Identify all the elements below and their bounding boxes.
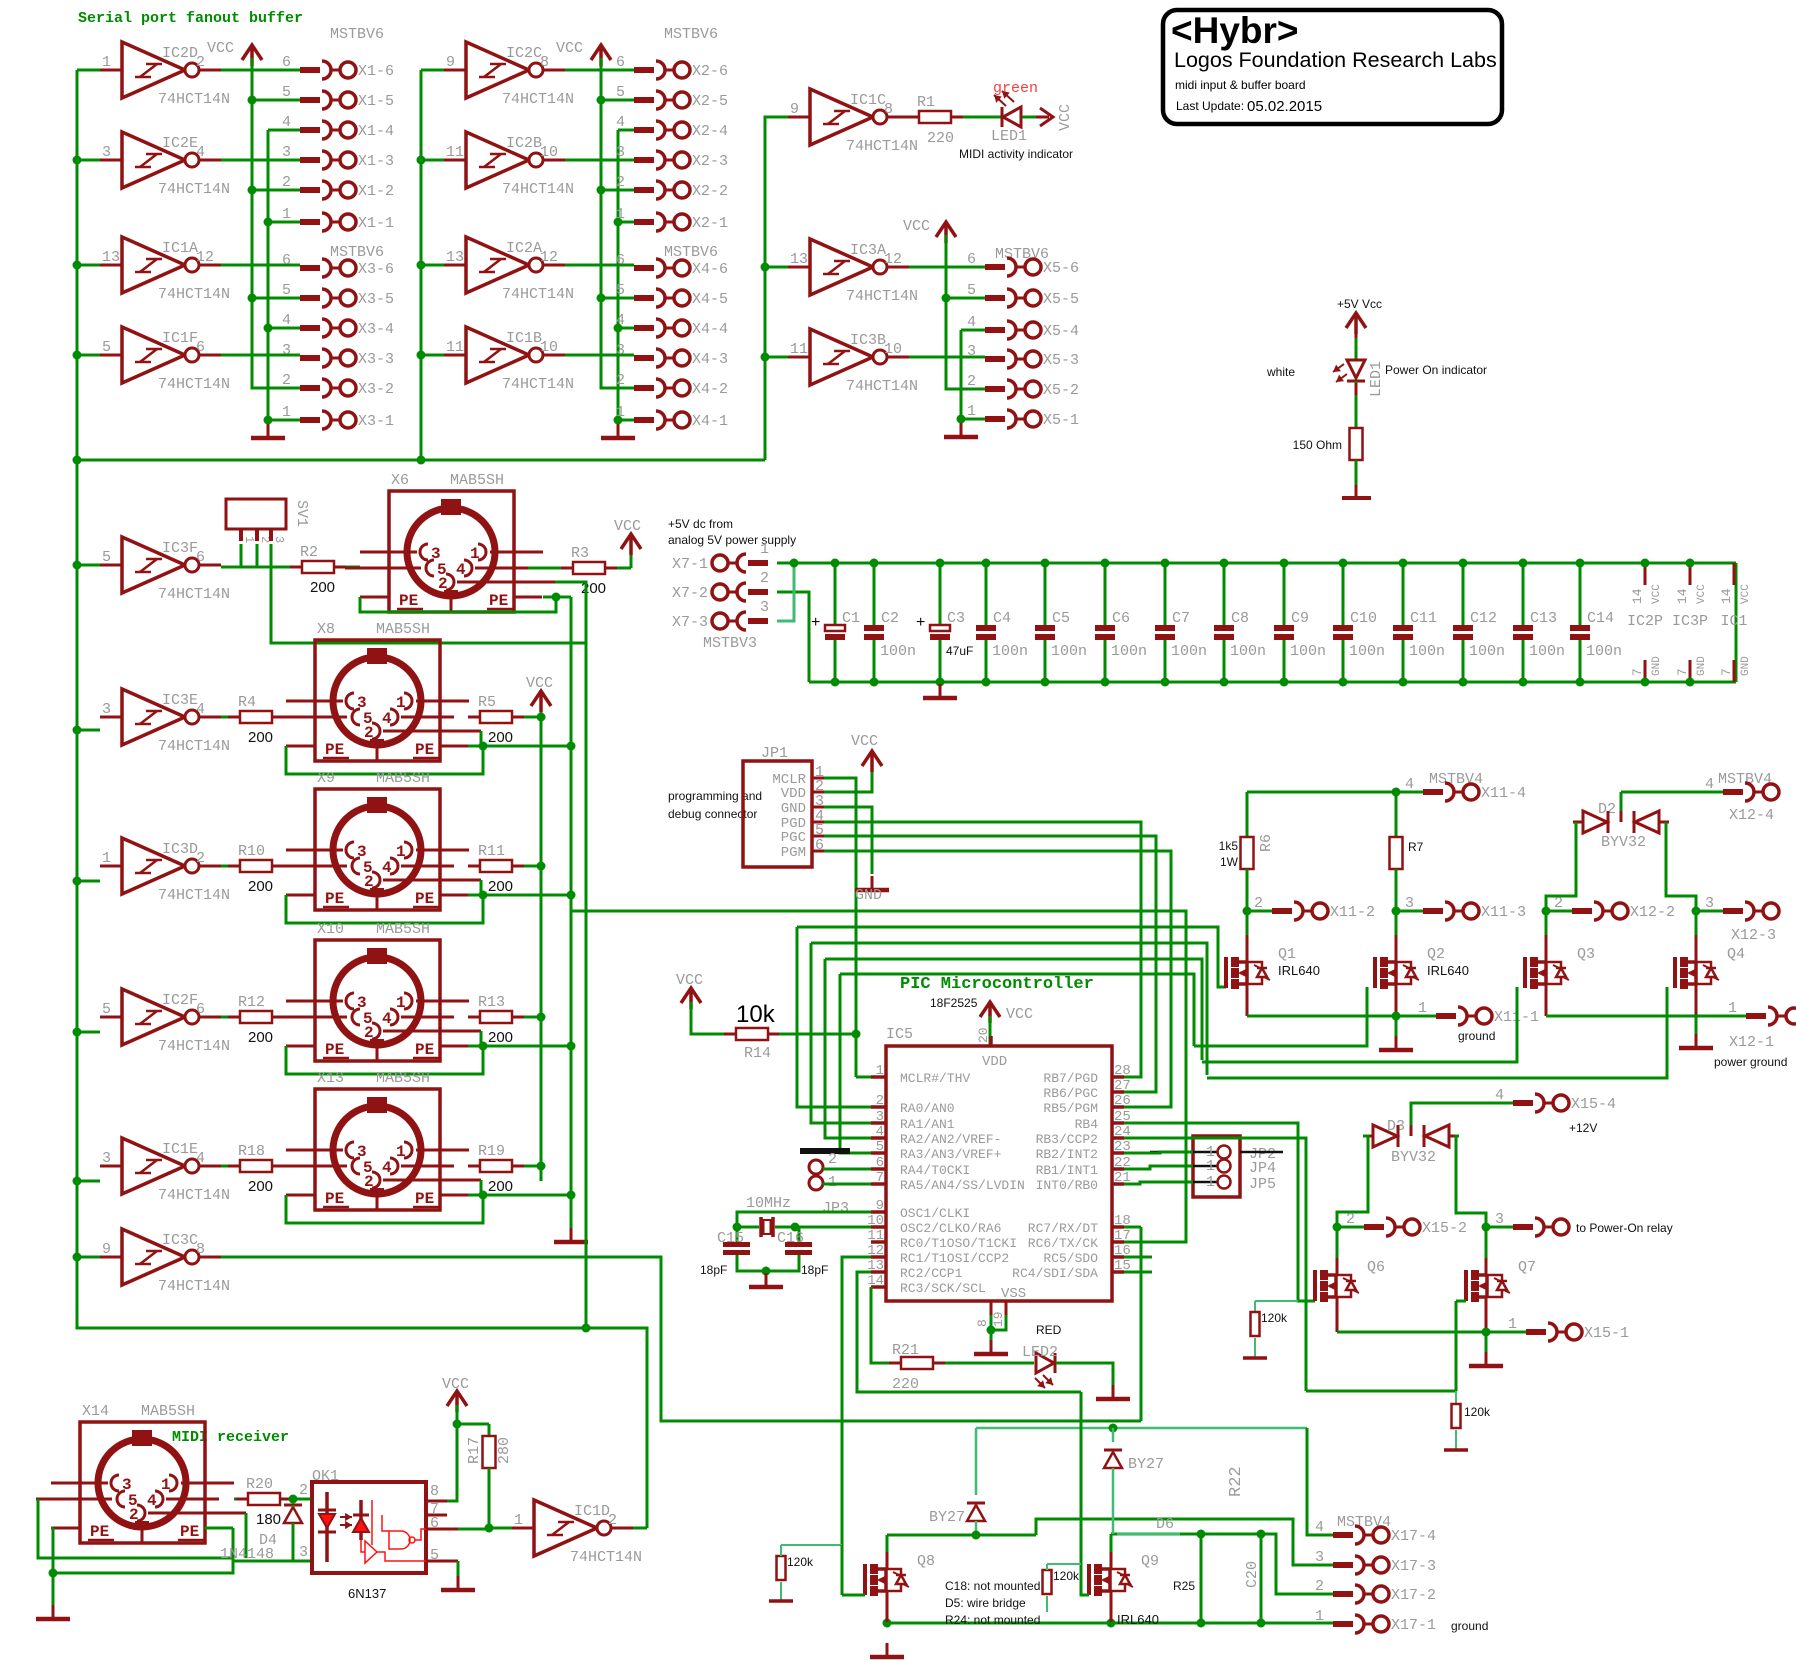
svg-text:RA1/AN1: RA1/AN1	[900, 1117, 955, 1132]
svg-text:RED: RED	[1036, 1323, 1062, 1337]
svg-text:R10: R10	[238, 843, 265, 860]
svg-text:IC3F: IC3F	[162, 540, 198, 557]
svg-text:LED1: LED1	[991, 128, 1027, 145]
svg-text:1: 1	[967, 403, 976, 420]
svg-text:IC1F: IC1F	[162, 330, 198, 347]
svg-text:C16: C16	[777, 1230, 804, 1247]
svg-text:R11: R11	[478, 843, 505, 860]
svg-text:X4-1: X4-1	[692, 413, 728, 430]
svg-text:1: 1	[1206, 1158, 1215, 1175]
svg-text:MAB5SH: MAB5SH	[141, 1403, 195, 1420]
svg-text:3: 3	[1705, 895, 1714, 912]
svg-text:X17-1: X17-1	[1391, 1617, 1436, 1634]
svg-text:X2-2: X2-2	[692, 183, 728, 200]
svg-text:C18: not mounted: C18: not mounted	[945, 1579, 1040, 1593]
svg-text:Logos Foundation Research Labs: Logos Foundation Research Labs	[1174, 48, 1497, 72]
svg-text:RC6/TX/CK: RC6/TX/CK	[1028, 1236, 1098, 1251]
svg-text:GND: GND	[1740, 656, 1752, 676]
svg-text:X11-4: X11-4	[1481, 785, 1526, 802]
svg-text:MAB5SH: MAB5SH	[376, 1070, 430, 1087]
svg-text:100n: 100n	[1290, 643, 1326, 660]
svg-text:IC3P: IC3P	[1672, 613, 1708, 630]
svg-text:MIDI activity indicator: MIDI activity indicator	[959, 147, 1073, 161]
svg-text:C13: C13	[1530, 610, 1557, 627]
svg-text:6: 6	[282, 54, 291, 71]
svg-text:C3: C3	[947, 610, 965, 627]
svg-text:3: 3	[876, 1109, 884, 1125]
svg-text:X5-3: X5-3	[1043, 352, 1079, 369]
svg-text:C10: C10	[1350, 610, 1377, 627]
svg-text:5: 5	[967, 282, 976, 299]
svg-text:2: 2	[616, 174, 625, 191]
svg-text:VSS: VSS	[1001, 1286, 1026, 1302]
svg-text:74HCT14N: 74HCT14N	[158, 1278, 230, 1295]
svg-text:Last Update:: Last Update:	[1176, 99, 1244, 113]
svg-text:Q3: Q3	[1577, 946, 1595, 963]
svg-text:1: 1	[1728, 1000, 1737, 1017]
svg-text:RC5/SDO: RC5/SDO	[1043, 1251, 1098, 1266]
svg-text:IC2P: IC2P	[1627, 613, 1663, 630]
svg-text:Serial port fanout buffer: Serial port fanout buffer	[78, 10, 303, 27]
svg-text:VCC: VCC	[442, 1376, 469, 1393]
svg-text:R6: R6	[1258, 834, 1275, 852]
svg-text:7: 7	[876, 1170, 884, 1186]
svg-text:4: 4	[967, 314, 976, 331]
svg-text:PE: PE	[415, 1190, 434, 1208]
svg-text:X2-5: X2-5	[692, 93, 728, 110]
svg-text:C20: C20	[1244, 1561, 1261, 1588]
svg-text:R25: R25	[1173, 1579, 1195, 1593]
svg-text:X15-4: X15-4	[1571, 1096, 1616, 1113]
svg-text:LED1: LED1	[1368, 361, 1385, 397]
svg-text:14: 14	[867, 1273, 884, 1289]
svg-text:JP5: JP5	[1249, 1176, 1276, 1193]
svg-text:1k5: 1k5	[1219, 839, 1239, 853]
svg-text:LED2: LED2	[1022, 1344, 1058, 1361]
svg-text:3: 3	[282, 144, 291, 161]
svg-text:10: 10	[884, 341, 902, 358]
svg-text:IC1E: IC1E	[162, 1141, 198, 1158]
svg-text:RA5/AN4/SS/LVDIN: RA5/AN4/SS/LVDIN	[900, 1178, 1025, 1193]
svg-text:C7: C7	[1172, 610, 1190, 627]
svg-text:MSTBV6: MSTBV6	[330, 244, 384, 261]
svg-text:VCC: VCC	[207, 40, 234, 57]
svg-text:Q2: Q2	[1427, 946, 1445, 963]
svg-text:3: 3	[272, 536, 286, 543]
svg-text:PGC: PGC	[781, 830, 806, 846]
svg-text:X6: X6	[391, 472, 409, 489]
svg-text:X12-3: X12-3	[1731, 927, 1776, 944]
svg-text:Q7: Q7	[1518, 1259, 1536, 1276]
svg-text:5: 5	[282, 282, 291, 299]
svg-text:74HCT14N: 74HCT14N	[158, 738, 230, 755]
svg-text:1: 1	[242, 536, 256, 543]
svg-text:SV1: SV1	[293, 500, 310, 527]
svg-text:<Hybr>: <Hybr>	[1171, 10, 1299, 51]
svg-text:D6: D6	[1156, 1516, 1174, 1533]
svg-text:10: 10	[540, 144, 558, 161]
svg-text:3: 3	[1495, 1211, 1504, 1228]
svg-text:6: 6	[616, 252, 625, 269]
svg-text:MAB5SH: MAB5SH	[450, 472, 504, 489]
svg-text:PE: PE	[415, 890, 434, 908]
svg-text:Power On indicator: Power On indicator	[1385, 363, 1487, 377]
svg-text:VCC: VCC	[1696, 584, 1708, 604]
svg-text:power ground: power ground	[1714, 1055, 1787, 1069]
svg-text:VDD: VDD	[781, 786, 806, 802]
svg-text:X4-4: X4-4	[692, 321, 728, 338]
svg-text:X5-2: X5-2	[1043, 382, 1079, 399]
svg-text:C12: C12	[1470, 610, 1497, 627]
svg-text:3: 3	[1315, 1549, 1324, 1566]
svg-text:VCC: VCC	[1740, 584, 1752, 604]
svg-text:RC3/SCK/SCL: RC3/SCK/SCL	[900, 1281, 986, 1296]
svg-text:7: 7	[1630, 668, 1645, 676]
svg-text:74HCT14N: 74HCT14N	[502, 286, 574, 303]
svg-text:C6: C6	[1112, 610, 1130, 627]
svg-text:200: 200	[248, 729, 273, 746]
svg-text:PIC Microcontroller: PIC Microcontroller	[900, 975, 1094, 994]
svg-text:6: 6	[967, 251, 976, 268]
svg-text:17: 17	[1114, 1228, 1131, 1244]
svg-text:R1: R1	[917, 94, 935, 111]
svg-text:GND: GND	[855, 887, 882, 904]
svg-text:R12: R12	[238, 994, 265, 1011]
svg-text:JP4: JP4	[1249, 1160, 1276, 1177]
svg-text:X5-4: X5-4	[1043, 323, 1079, 340]
svg-text:11: 11	[446, 144, 464, 161]
svg-text:200: 200	[488, 1029, 513, 1046]
svg-text:6: 6	[815, 837, 824, 854]
svg-text:150 Ohm: 150 Ohm	[1293, 438, 1342, 452]
svg-text:X15-2: X15-2	[1422, 1220, 1467, 1237]
svg-text:ground: ground	[1458, 1029, 1495, 1043]
svg-text:C15: C15	[717, 1230, 744, 1247]
svg-text:VCC: VCC	[526, 675, 553, 692]
svg-text:2: 2	[828, 1151, 837, 1168]
svg-text:220: 220	[892, 1376, 919, 1393]
svg-text:18pF: 18pF	[801, 1263, 828, 1277]
svg-text:1: 1	[102, 54, 111, 71]
svg-text:RC1/T1OSI/CCP2: RC1/T1OSI/CCP2	[900, 1251, 1009, 1266]
svg-text:VCC: VCC	[676, 972, 703, 989]
svg-text:programming and: programming and	[668, 789, 762, 803]
svg-text:14: 14	[1630, 588, 1645, 604]
svg-text:IC1A: IC1A	[162, 240, 198, 257]
svg-text:IC2A: IC2A	[506, 240, 542, 257]
svg-text:200: 200	[488, 729, 513, 746]
svg-text:MSTBV6: MSTBV6	[330, 26, 384, 43]
svg-text:120k: 120k	[1053, 1569, 1080, 1583]
svg-text:VCC: VCC	[614, 518, 641, 535]
svg-text:X5-5: X5-5	[1043, 291, 1079, 308]
svg-text:12: 12	[196, 249, 214, 266]
svg-text:12: 12	[884, 251, 902, 268]
svg-text:IC3C: IC3C	[162, 1232, 198, 1249]
svg-text:3: 3	[616, 144, 625, 161]
svg-text:X5-1: X5-1	[1043, 412, 1079, 429]
svg-text:PE: PE	[399, 592, 418, 610]
svg-text:6N137: 6N137	[348, 1586, 386, 1601]
svg-text:13: 13	[790, 251, 808, 268]
svg-text:R18: R18	[238, 1143, 265, 1160]
svg-text:X9: X9	[317, 770, 335, 787]
svg-text:R17: R17	[466, 1437, 483, 1464]
svg-text:11: 11	[446, 339, 464, 356]
svg-text:PE: PE	[415, 741, 434, 759]
svg-text:X1-6: X1-6	[358, 63, 394, 80]
svg-text:MIDI receiver: MIDI receiver	[172, 1429, 289, 1446]
svg-text:X1-2: X1-2	[358, 183, 394, 200]
svg-text:IC3B: IC3B	[850, 332, 886, 349]
svg-text:3: 3	[299, 1544, 308, 1561]
svg-text:RC7/RX/DT: RC7/RX/DT	[1028, 1221, 1098, 1236]
svg-text:RC0/T1OSO/T1CKI: RC0/T1OSO/T1CKI	[900, 1236, 1017, 1251]
svg-text:X17-4: X17-4	[1391, 1528, 1436, 1545]
svg-text:18pF: 18pF	[700, 1263, 727, 1277]
svg-text:2: 2	[616, 372, 625, 389]
svg-text:RB6/PGC: RB6/PGC	[1043, 1086, 1098, 1101]
svg-text:4: 4	[1495, 1087, 1504, 1104]
svg-text:100n: 100n	[1230, 643, 1266, 660]
svg-text:47uF: 47uF	[946, 644, 973, 658]
svg-text:MAB5SH: MAB5SH	[376, 921, 430, 938]
svg-text:2: 2	[299, 1482, 308, 1499]
svg-text:220: 220	[927, 130, 954, 147]
svg-text:100n: 100n	[1349, 643, 1385, 660]
svg-text:1: 1	[1418, 1000, 1427, 1017]
svg-text:1: 1	[282, 206, 291, 223]
svg-text:RB3/CCP2: RB3/CCP2	[1036, 1132, 1098, 1147]
svg-text:3: 3	[102, 144, 111, 161]
svg-text:X12-4: X12-4	[1729, 807, 1774, 824]
svg-text:PE: PE	[325, 1041, 344, 1059]
svg-text:JP3: JP3	[822, 1200, 849, 1217]
svg-text:200: 200	[248, 878, 273, 895]
svg-text:RA0/AN0: RA0/AN0	[900, 1101, 955, 1116]
svg-text:IC1C: IC1C	[850, 92, 886, 109]
svg-text:IC2C: IC2C	[506, 45, 542, 62]
svg-text:200: 200	[488, 1178, 513, 1195]
svg-text:100n: 100n	[1111, 643, 1147, 660]
svg-text:INT0/RB0: INT0/RB0	[1036, 1178, 1098, 1193]
svg-text:5: 5	[102, 549, 111, 566]
svg-text:X17-2: X17-2	[1391, 1587, 1436, 1604]
svg-text:120k: 120k	[787, 1555, 814, 1569]
svg-text:X4-3: X4-3	[692, 351, 728, 368]
svg-text:R3: R3	[571, 545, 589, 562]
svg-text:GND: GND	[1651, 656, 1663, 676]
svg-text:VCC: VCC	[1651, 584, 1663, 604]
svg-text:27: 27	[1114, 1078, 1131, 1094]
svg-text:+: +	[811, 614, 820, 631]
svg-text:RB2/INT2: RB2/INT2	[1036, 1147, 1098, 1162]
svg-text:BYV32: BYV32	[1391, 1149, 1436, 1166]
svg-text:RA2/AN2/VREF-: RA2/AN2/VREF-	[900, 1132, 1001, 1147]
svg-text:X2-4: X2-4	[692, 123, 728, 140]
svg-text:MSTBV6: MSTBV6	[664, 244, 718, 261]
svg-text:R4: R4	[238, 694, 256, 711]
svg-text:R14: R14	[744, 1045, 771, 1062]
svg-text:1: 1	[1206, 1174, 1215, 1191]
svg-text:120k: 120k	[1261, 1311, 1288, 1325]
svg-text:100n: 100n	[1051, 643, 1087, 660]
svg-text:2: 2	[876, 1093, 884, 1109]
svg-text:BY27: BY27	[1128, 1456, 1164, 1473]
svg-text:MAB5SH: MAB5SH	[376, 770, 430, 787]
svg-text:X7-1: X7-1	[672, 556, 708, 573]
svg-text:1: 1	[1508, 1316, 1517, 1333]
svg-text:X4-6: X4-6	[692, 261, 728, 278]
svg-text:2: 2	[1554, 895, 1563, 912]
svg-text:X4-5: X4-5	[692, 291, 728, 308]
svg-text:2: 2	[282, 372, 291, 389]
svg-text:X12-1: X12-1	[1729, 1034, 1774, 1051]
svg-text:2: 2	[967, 373, 976, 390]
svg-text:X11-3: X11-3	[1481, 904, 1526, 921]
svg-text:74HCT14N: 74HCT14N	[502, 181, 574, 198]
svg-text:10: 10	[540, 339, 558, 356]
svg-text:74HCT14N: 74HCT14N	[846, 378, 918, 395]
svg-text:200: 200	[248, 1029, 273, 1046]
svg-text:1: 1	[616, 206, 625, 223]
svg-text:PGM: PGM	[781, 845, 806, 861]
svg-text:4: 4	[282, 114, 291, 131]
svg-text:14: 14	[1719, 588, 1734, 604]
svg-text:X3-1: X3-1	[358, 413, 394, 430]
svg-text:IC5: IC5	[886, 1026, 913, 1043]
svg-text:VCC: VCC	[903, 218, 930, 235]
svg-text:18F2525: 18F2525	[930, 996, 978, 1010]
svg-text:RB5/PGM: RB5/PGM	[1043, 1101, 1098, 1116]
svg-text:to Power-On relay: to Power-On relay	[1576, 1221, 1673, 1235]
svg-text:RB4: RB4	[1075, 1117, 1099, 1132]
svg-text:Q8: Q8	[917, 1553, 935, 1570]
svg-text:200: 200	[310, 579, 335, 596]
svg-text:74HCT14N: 74HCT14N	[158, 286, 230, 303]
svg-text:4: 4	[616, 114, 625, 131]
svg-text:3: 3	[1405, 895, 1414, 912]
svg-text:RA3/AN3/VREF+: RA3/AN3/VREF+	[900, 1147, 1002, 1162]
svg-text:R19: R19	[478, 1143, 505, 1160]
svg-text:MSTBV6: MSTBV6	[664, 26, 718, 43]
svg-text:7: 7	[1719, 668, 1734, 676]
svg-text:5: 5	[876, 1139, 884, 1155]
svg-text:RA4/T0CKI: RA4/T0CKI	[900, 1163, 970, 1178]
svg-text:C14: C14	[1587, 610, 1614, 627]
svg-text:MSTBV6: MSTBV6	[995, 246, 1049, 263]
svg-text:100n: 100n	[880, 643, 916, 660]
svg-text:2: 2	[1254, 895, 1263, 912]
svg-text:+12V: +12V	[1569, 1121, 1597, 1135]
svg-text:PE: PE	[415, 1041, 434, 1059]
svg-text:1: 1	[282, 404, 291, 421]
svg-text:1W: 1W	[1220, 855, 1239, 869]
svg-text:100n: 100n	[992, 643, 1028, 660]
svg-text:midi input & buffer board: midi input & buffer board	[1175, 78, 1306, 92]
svg-text:3: 3	[616, 342, 625, 359]
svg-text:X3-5: X3-5	[358, 291, 394, 308]
svg-text:Q6: Q6	[1367, 1259, 1385, 1276]
svg-text:+5V dc from: +5V dc from	[668, 517, 733, 531]
svg-text:PE: PE	[180, 1523, 199, 1541]
svg-text:2: 2	[1315, 1578, 1324, 1595]
svg-text:4: 4	[616, 312, 625, 329]
svg-text:X7-2: X7-2	[672, 585, 708, 602]
svg-text:13: 13	[446, 249, 464, 266]
svg-text:5: 5	[282, 84, 291, 101]
svg-text:Q9: Q9	[1141, 1553, 1159, 1570]
svg-text:5: 5	[102, 1001, 111, 1018]
svg-text:1: 1	[876, 1063, 884, 1079]
svg-text:6: 6	[430, 1515, 439, 1532]
svg-text:8: 8	[430, 1483, 439, 1500]
svg-text:X1-3: X1-3	[358, 153, 394, 170]
svg-text:X4-2: X4-2	[692, 381, 728, 398]
svg-text:9: 9	[102, 1241, 111, 1258]
svg-text:IC3D: IC3D	[162, 841, 198, 858]
svg-text:9: 9	[876, 1198, 884, 1214]
svg-text:C11: C11	[1410, 610, 1437, 627]
svg-text:OSC1/CLKI: OSC1/CLKI	[900, 1206, 970, 1221]
svg-text:MAB5SH: MAB5SH	[376, 621, 430, 638]
svg-text:+5V Vcc: +5V Vcc	[1337, 297, 1382, 311]
svg-text:100n: 100n	[1171, 643, 1207, 660]
svg-text:100n: 100n	[1529, 643, 1565, 660]
svg-text:1: 1	[514, 1512, 523, 1529]
svg-text:C8: C8	[1231, 610, 1249, 627]
svg-text:X1-1: X1-1	[358, 215, 394, 232]
svg-text:X5-6: X5-6	[1043, 260, 1079, 277]
svg-text:+: +	[916, 614, 925, 631]
svg-text:10MHz: 10MHz	[746, 1195, 791, 1212]
svg-text:X1-4: X1-4	[358, 123, 394, 140]
svg-text:74HCT14N: 74HCT14N	[158, 887, 230, 904]
svg-text:280: 280	[496, 1437, 513, 1464]
svg-text:2: 2	[282, 174, 291, 191]
svg-text:X3-6: X3-6	[358, 261, 394, 278]
svg-text:PE: PE	[325, 741, 344, 759]
svg-text:C5: C5	[1052, 610, 1070, 627]
svg-text:200: 200	[248, 1178, 273, 1195]
svg-text:74HCT14N: 74HCT14N	[502, 376, 574, 393]
svg-text:RC4/SDI/SDA: RC4/SDI/SDA	[1012, 1266, 1098, 1281]
svg-text:VCC: VCC	[1006, 1006, 1033, 1023]
svg-text:74HCT14N: 74HCT14N	[158, 91, 230, 108]
svg-text:2: 2	[1346, 1211, 1355, 1228]
svg-text:Q4: Q4	[1727, 946, 1745, 963]
svg-text:3: 3	[760, 599, 769, 616]
svg-text:74HCT14N: 74HCT14N	[158, 1038, 230, 1055]
svg-text:74HCT14N: 74HCT14N	[158, 1187, 230, 1204]
svg-text:20: 20	[976, 1027, 991, 1043]
svg-text:74HCT14N: 74HCT14N	[846, 138, 918, 155]
svg-text:X15-1: X15-1	[1584, 1325, 1629, 1342]
svg-text:19: 19	[991, 1311, 1006, 1327]
svg-text:7: 7	[1675, 668, 1690, 676]
svg-text:X17-3: X17-3	[1391, 1558, 1436, 1575]
svg-text:white: white	[1266, 365, 1295, 379]
svg-text:74HCT14N: 74HCT14N	[570, 1549, 642, 1566]
svg-text:green: green	[993, 80, 1038, 97]
svg-text:5: 5	[616, 282, 625, 299]
svg-text:11: 11	[867, 1228, 884, 1244]
svg-text:12: 12	[540, 249, 558, 266]
svg-text:100n: 100n	[1409, 643, 1445, 660]
svg-text:74HCT14N: 74HCT14N	[158, 586, 230, 603]
svg-text:11: 11	[790, 341, 808, 358]
svg-text:4: 4	[1705, 776, 1714, 793]
